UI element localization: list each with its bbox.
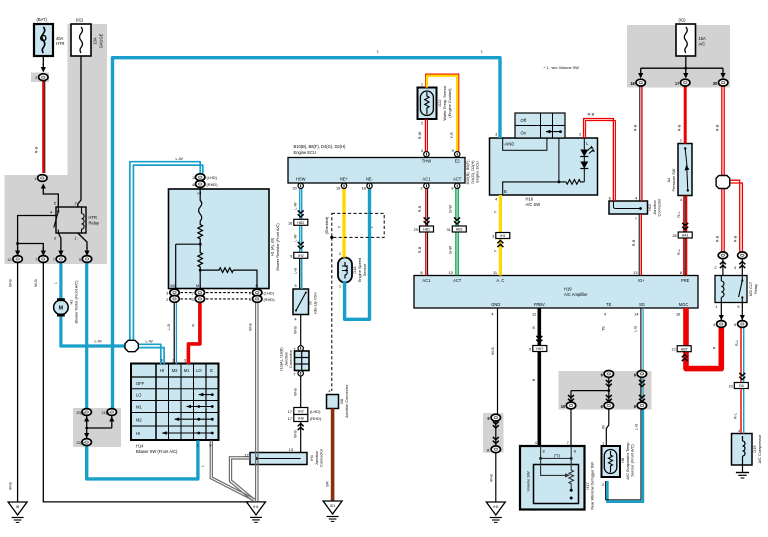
svg-text:Y: Y <box>492 210 497 213</box>
gray highlight behind connector 2 <box>31 73 49 83</box>
svg-text:3: 3 <box>734 265 736 270</box>
svg-text:LO: LO <box>196 368 201 373</box>
svg-text:11: 11 <box>493 270 497 275</box>
connector oval 7b <box>53 256 66 263</box>
svg-text:Relay: Relay <box>753 284 758 294</box>
svg-text:3: 3 <box>184 358 186 363</box>
svg-text:IH2: IH2 <box>298 254 304 258</box>
svg-text:1: 1 <box>421 82 423 87</box>
svg-text:7: 7 <box>635 216 637 221</box>
svg-text:3: 3 <box>166 291 168 296</box>
wire L-W: blower motor bottom to octagon junction <box>61 316 126 347</box>
svg-text:5: 5 <box>737 304 739 309</box>
svg-text:2: 2 <box>421 121 423 126</box>
svg-text:Relay: Relay <box>89 221 100 226</box>
svg-text:Blower SW (Front A/C): Blower SW (Front A/C) <box>136 449 178 454</box>
resistor top oval 4 (RHD) <box>192 181 218 188</box>
svg-text:HI: HI <box>160 368 164 373</box>
svg-text:21: 21 <box>106 410 110 415</box>
connector HB2 16 <box>288 219 308 225</box>
svg-text:6: 6 <box>574 448 576 453</box>
wire R-L: MG CLT oval 6 to D8 connector to compressor <box>741 328 744 434</box>
blower SW contact LO row <box>198 393 213 397</box>
svg-text:D8: D8 <box>739 384 744 388</box>
svg-text:M2: M2 <box>172 368 178 373</box>
svg-text:28: 28 <box>672 233 676 238</box>
svg-text:IH2: IH2 <box>298 410 304 414</box>
connector oval 21 <box>101 409 116 416</box>
svg-text:2: 2 <box>421 186 423 191</box>
blower resistor H1 box <box>169 189 270 289</box>
connector oval 1 above relay <box>34 175 47 182</box>
svg-text:H16: H16 <box>526 197 534 202</box>
svg-text:L-B: L-B <box>633 424 638 430</box>
wire L-B: IH2 connector to idle-up VSV <box>300 258 302 289</box>
svg-text:G-W: G-W <box>448 246 453 254</box>
wire stub: resistor top ovals to box <box>199 185 201 190</box>
svg-text:NE-: NE- <box>366 176 374 181</box>
svg-text:Connector: Connector <box>657 198 662 217</box>
svg-text:12: 12 <box>244 453 248 458</box>
svg-text:R-B: R-B <box>417 246 422 253</box>
svg-text:3: 3 <box>54 236 56 241</box>
svg-text:M1: M1 <box>136 405 142 410</box>
svg-text:A/C Amplifier: A/C Amplifier <box>564 292 588 297</box>
svg-text:7: 7 <box>53 257 55 262</box>
svg-text:Sensor (Front A/C): Sensor (Front A/C) <box>630 444 635 477</box>
svg-text:Engine ECU: Engine ECU <box>475 161 480 183</box>
svg-text:Idle-Up VSV: Idle-Up VSV <box>312 292 317 314</box>
svg-text:9: 9 <box>487 416 489 421</box>
blower resistor labels <box>166 175 280 331</box>
svg-text:W-B: W-B <box>8 482 13 490</box>
MG CLT top oval right <box>734 252 747 270</box>
A/C SW labels <box>492 65 594 252</box>
svg-text:HB1: HB1 <box>456 228 463 232</box>
svg-text:Engine ECU: Engine ECU <box>294 150 317 155</box>
fuse block oval 18 <box>630 79 645 86</box>
svg-text:A/C Compressor: A/C Compressor <box>757 434 762 463</box>
svg-text:GAUGE: GAUGE <box>99 33 104 48</box>
bottom labels <box>486 326 762 510</box>
svg-text:3: 3 <box>495 131 497 136</box>
svg-text:16: 16 <box>288 220 292 225</box>
wire R-B: octagon down to MG CLT oval 2 <box>722 188 724 253</box>
svg-text:2: 2 <box>172 358 174 363</box>
svg-text:9: 9 <box>452 148 454 153</box>
svg-text:HH7: HH7 <box>536 347 543 351</box>
svg-text:8: 8 <box>543 448 545 453</box>
wire: TE/SG panel jumpers <box>568 377 645 403</box>
svg-text:6: 6 <box>634 372 636 377</box>
wire W-B: I13 to IH2/IH8 connectors <box>300 376 302 408</box>
blower SW contact HI row <box>162 431 214 435</box>
MG CLT relay box <box>715 276 747 303</box>
blower SW table H14 <box>131 364 219 441</box>
connector IH8 17 (RHD) <box>288 415 322 422</box>
svg-text:22: 22 <box>81 440 85 445</box>
wire L-W: oval 22 to blower SW pin 1 bottom loop <box>87 441 198 479</box>
svg-text:PRE: PRE <box>681 278 690 283</box>
wire Y-R: yellow body <box>427 76 457 152</box>
svg-text:Pressure SW: Pressure SW <box>671 168 676 191</box>
svg-text:L-W: L-W <box>95 339 102 344</box>
svg-text:13: 13 <box>289 447 293 452</box>
connector D8 10 <box>728 383 748 389</box>
svg-text:5: 5 <box>54 201 56 206</box>
right column labels <box>609 18 758 420</box>
svg-text:B: B <box>504 189 507 194</box>
SG panel oval 6 <box>634 371 647 378</box>
svg-text:M1: M1 <box>184 368 190 373</box>
svg-text:B: B <box>531 326 536 329</box>
svg-text:7: 7 <box>567 440 569 445</box>
svg-text:R: R <box>190 324 195 327</box>
wire W-B: IH8 to IH1 bar pin 13 <box>300 422 302 453</box>
svg-text:W-B: W-B <box>248 323 253 331</box>
MG CLT bottom oval right <box>734 321 747 328</box>
wire R-B: battery fuse to oval 1 <box>42 81 44 173</box>
svg-text:R-L: R-L <box>734 339 739 346</box>
svg-text:HA1: HA1 <box>682 234 689 238</box>
svg-text:13: 13 <box>633 270 637 275</box>
svg-text:L-W: L-W <box>292 234 297 241</box>
svg-text:Y: Y <box>337 225 342 228</box>
wire: compressor to ground <box>736 462 749 478</box>
svg-text:31: 31 <box>446 227 450 232</box>
svg-text:Off: Off <box>521 118 527 123</box>
fuse block oval 20b <box>713 79 728 86</box>
IH1 junction connector bar <box>250 453 307 465</box>
svg-text:W-B: W-B <box>292 430 297 438</box>
wire R-L: pressure SW to amplifier PRE <box>684 196 687 276</box>
wire L-B: amplifier SG down through ovals <box>641 308 643 403</box>
fuse box (IG) 10A GAUGE <box>71 24 91 56</box>
MG CLT bottom oval left <box>713 321 726 328</box>
svg-text:13: 13 <box>448 270 452 275</box>
wire R-B: fuse oval 18 to H12 pin 4 <box>640 86 642 201</box>
svg-text:Connector: Connector <box>288 349 293 368</box>
pressure SW A4 box <box>678 144 692 196</box>
fuse box (BAT) 40A HTR <box>34 24 53 56</box>
wire G-W: ECU ACT to amplifier ACT <box>455 188 457 276</box>
connector oval 22 <box>76 439 91 446</box>
wire L: main cyan from top-left corner to oval 21 and to A/C SW <box>113 58 501 410</box>
svg-text:A/C SW: A/C SW <box>526 202 541 207</box>
connector IH2 9 <box>290 252 308 258</box>
svg-text:SG: SG <box>639 302 645 307</box>
wire W: oval 8 to evaporator sensor pin 1 <box>606 409 609 447</box>
svg-text:1: 1 <box>34 176 36 181</box>
ground ID1 brown <box>323 501 342 521</box>
svg-text:(LHD): (LHD) <box>207 175 218 180</box>
idle-up VSV box <box>293 289 309 315</box>
svg-text:W-B: W-B <box>490 347 495 355</box>
svg-text:2: 2 <box>579 131 581 136</box>
svg-text:W-B: W-B <box>8 279 13 287</box>
svg-text:ID1: ID1 <box>330 504 335 508</box>
octagon junction blower circuit <box>125 340 138 351</box>
blower SW contact M1 row <box>186 405 214 409</box>
volume SW box H17 <box>520 446 585 510</box>
svg-text:16: 16 <box>676 311 680 316</box>
svg-text:(BAT): (BAT) <box>37 17 48 22</box>
resistor bottom ovals M2 M1 E with dashed links <box>166 289 275 302</box>
svg-text:7: 7 <box>293 371 295 376</box>
svg-text:M2: M2 <box>136 417 142 422</box>
wire L-W: octagon to blower SW pin 6 (double) <box>137 344 164 364</box>
svg-text:12: 12 <box>532 311 536 316</box>
panel oval 10 <box>561 402 576 409</box>
svg-text:W-B: W-B <box>33 279 38 287</box>
wire: relay pin5 to oval 1 <box>41 184 59 208</box>
wire Y-R: water temp sensor to ECU E2 (red edge) <box>426 74 459 151</box>
svg-text:HB2: HB2 <box>297 221 304 225</box>
connector HH7 5 <box>529 346 547 352</box>
connector HBT 12 <box>671 346 691 352</box>
svg-text:On: On <box>521 130 527 135</box>
A/C amplifier H19 box <box>414 276 698 309</box>
wire R-B: fuse oval 20 to octagon filter <box>722 86 724 176</box>
svg-text:A/C: A/C <box>699 41 706 46</box>
svg-text:17: 17 <box>288 409 292 414</box>
svg-text:THW: THW <box>422 158 431 163</box>
connector oval 20 <box>76 409 91 416</box>
blower motor H2 <box>54 298 69 316</box>
svg-text:7: 7 <box>35 257 37 262</box>
svg-text:17: 17 <box>675 81 679 86</box>
svg-text:IG+: IG+ <box>638 278 645 283</box>
svg-text:29: 29 <box>414 227 418 232</box>
HTR relay box <box>54 207 86 233</box>
svg-text:8: 8 <box>601 404 603 409</box>
svg-text:FRBV: FRBV <box>534 302 545 307</box>
svg-text:BR: BR <box>324 481 329 487</box>
svg-text:5: 5 <box>529 347 531 352</box>
svg-text:3: 3 <box>294 283 296 288</box>
I13 junction connector grid <box>295 351 310 371</box>
svg-text:6: 6 <box>609 196 611 201</box>
svg-text:(Shielded): (Shielded) <box>324 216 329 234</box>
svg-text:L-W: L-W <box>292 202 297 209</box>
svg-text:ACT: ACT <box>453 278 462 283</box>
svg-text:HI: HI <box>136 431 140 436</box>
connector oval 12 <box>7 256 22 263</box>
wire BR: I18 to ground <box>331 409 335 502</box>
svg-text:G-W: G-W <box>448 205 453 213</box>
svg-text:HI: HI <box>198 190 202 195</box>
svg-text:AIND: AIND <box>505 141 515 146</box>
engine ECU labels <box>292 144 479 191</box>
svg-text:1: 1 <box>197 442 199 447</box>
text labels top left <box>8 17 104 490</box>
svg-text:18: 18 <box>361 186 365 191</box>
svg-text:HBT: HBT <box>681 347 689 351</box>
wire: oval 10 to volume SW pin 7 <box>570 409 572 447</box>
svg-text:(RHD): (RHD) <box>310 416 322 421</box>
svg-text:HTR: HTR <box>89 215 97 220</box>
svg-text:(Engine Coolant): (Engine Coolant) <box>447 88 452 118</box>
svg-text:H1 (A), (B): H1 (A), (B) <box>270 237 275 256</box>
svg-text:R-W: R-W <box>417 131 422 139</box>
svg-text:R-B: R-B <box>677 124 682 131</box>
connector IH2 17 (LHD) <box>288 408 321 415</box>
wire R: fuse oval 17 to pressure SW <box>684 86 687 144</box>
svg-text:OFF: OFF <box>136 381 145 386</box>
svg-text:5: 5 <box>79 257 81 262</box>
water temp sensor D22 <box>418 88 437 120</box>
svg-text:2: 2 <box>192 291 194 296</box>
svg-text:1: 1 <box>194 175 196 180</box>
svg-text:AC1: AC1 <box>422 278 431 283</box>
svg-text:(IG): (IG) <box>76 18 84 23</box>
GND panel oval 1 <box>488 446 501 453</box>
svg-text:TE: TE <box>606 302 612 307</box>
H12 junction connector box <box>609 201 648 214</box>
wire: relay pin1 to oval <box>78 233 90 256</box>
svg-text:8: 8 <box>451 186 453 191</box>
wire B: amplifier FRBV thick black to volume SW <box>537 308 541 446</box>
wire L-W: octagon to blower resistor top pins (double line inner) <box>133 165 202 343</box>
wire L: relay pin3 oval to blower motor <box>59 261 62 299</box>
A/C SW box H16 <box>490 138 598 195</box>
svg-text:* 1 : w/o Volume SW: * 1 : w/o Volume SW <box>544 65 580 70</box>
svg-text:AC1: AC1 <box>422 176 431 181</box>
svg-text:R-B: R-B <box>417 205 422 212</box>
svg-text:1: 1 <box>75 236 77 241</box>
svg-text:2: 2 <box>339 251 341 256</box>
svg-text:LO: LO <box>136 393 141 398</box>
svg-text:M1: M1 <box>196 283 201 288</box>
wires: blower connector block jumpers 20/21/22 <box>84 416 114 439</box>
svg-text:6: 6 <box>161 358 163 363</box>
svg-text:L-B: L-B <box>166 324 171 330</box>
svg-text:2: 2 <box>35 75 37 80</box>
svg-text:1: 1 <box>339 284 341 289</box>
svg-text:W-B: W-B <box>292 388 297 396</box>
wire R: resistor M1 to blower SW pin 3 (thick red) <box>188 302 200 364</box>
wire W-B: oval 7 to ground bus <box>43 263 249 502</box>
ground IB bottom left <box>8 502 27 522</box>
svg-text:Sensor: Sensor <box>362 263 367 276</box>
wire: relay pin3 to oval <box>58 233 63 256</box>
wire L-B: oval to evaporator sensor pin 2 (U loop) <box>606 409 643 502</box>
A/C SW internals <box>503 138 595 195</box>
svg-text:Connector: Connector <box>318 448 323 467</box>
svg-text:(LHD): (LHD) <box>310 409 321 414</box>
svg-text:12: 12 <box>7 257 11 262</box>
wire R-B: octagon right branch to MG CLT oval 3 <box>730 180 743 252</box>
resistor top oval 1 (LHD) <box>192 174 218 181</box>
wire W-B: amplifier GND to ground <box>496 308 498 502</box>
svg-text:B: B <box>531 378 536 381</box>
fuse block oval 17 <box>675 79 690 86</box>
text labels cyan L line <box>95 49 485 468</box>
svg-text:W-B: W-B <box>488 474 493 482</box>
svg-text:IH8: IH8 <box>298 417 304 421</box>
wire R-B: H12 pin 7 to amplifier IG+ <box>639 214 641 276</box>
svg-text:L-W: L-W <box>146 339 153 344</box>
svg-text:E2: E2 <box>455 158 461 163</box>
svg-text:IH2: IH2 <box>493 505 498 509</box>
svg-text:R-B: R-B <box>715 235 720 242</box>
svg-text:Rear Window Defogger SW: Rear Window Defogger SW <box>590 462 595 510</box>
gray panel: top right fuse block (IG) A/C <box>627 25 730 88</box>
connector oval 2 below BAT fuse <box>35 74 48 81</box>
blower resistor internals <box>176 189 257 289</box>
amplifier labels <box>420 270 689 317</box>
svg-text:HSW: HSW <box>296 176 306 181</box>
svg-text:Junction Connector: Junction Connector <box>344 384 349 418</box>
connector oval 5 <box>79 256 92 263</box>
svg-text:19: 19 <box>336 186 340 191</box>
svg-text:9: 9 <box>601 372 603 377</box>
svg-text:2: 2 <box>602 482 604 487</box>
wire R-B: A/C SW pin L to H12 pin 6 <box>584 119 616 201</box>
water temp sensor labels <box>417 82 454 254</box>
svg-text:2: 2 <box>714 265 716 270</box>
svg-text:E: E <box>256 283 259 288</box>
svg-text:18: 18 <box>630 81 634 86</box>
svg-text:R-B: R-B <box>631 239 636 246</box>
svg-text:(IG): (IG) <box>679 18 687 23</box>
svg-text:15A: 15A <box>699 36 707 41</box>
svg-text:R-B: R-B <box>588 112 595 117</box>
svg-text:R-B: R-B <box>34 146 39 153</box>
I13 pin circles 7/7 <box>293 346 303 377</box>
panel oval 8b <box>634 402 647 409</box>
wire R-B: ECU AC1 to amplifier AC1 <box>425 188 427 276</box>
svg-text:9: 9 <box>290 253 292 258</box>
svg-text:Volume SW: Volume SW <box>525 471 530 492</box>
wire R: amplifier MGC thick red loop to MG CLT oval 4 <box>686 308 721 369</box>
svg-text:1: 1 <box>715 304 717 309</box>
svg-text:2: 2 <box>166 297 168 302</box>
svg-text:Blower Motor (Front A/C): Blower Motor (Front A/C) <box>74 280 79 324</box>
gray panel: GND connector block <box>483 413 504 453</box>
svg-text:NE+: NE+ <box>340 176 349 181</box>
svg-text:1: 1 <box>602 440 604 445</box>
wire L-B: resistor M2 to blower SW pin 2 <box>174 302 176 364</box>
svg-text:ACT: ACT <box>453 176 462 181</box>
svg-text:Y-R: Y-R <box>449 132 454 139</box>
svg-text:1: 1 <box>486 448 488 453</box>
svg-text:7: 7 <box>293 346 295 351</box>
ground IH1 center <box>247 502 266 522</box>
connector HB1 31 <box>446 226 466 232</box>
svg-text:8: 8 <box>209 442 211 447</box>
svg-text:(LHD): (LHD) <box>264 291 275 296</box>
connector oval 7a <box>35 256 48 263</box>
svg-text:E: E <box>210 368 213 373</box>
svg-text:1: 1 <box>680 138 682 143</box>
wire: BAT fuse to oval 2 with arrow <box>41 56 46 73</box>
ECU pin circles <box>298 152 460 189</box>
svg-text:(*1): (*1) <box>554 452 561 457</box>
svg-text:R: R <box>711 346 716 349</box>
svg-text:TE: TE <box>600 326 605 331</box>
MG CLT top oval left <box>714 252 727 270</box>
svg-text:12: 12 <box>671 347 675 352</box>
wire: relay pin4 to ovals 12 and 7 <box>15 216 56 257</box>
wire: IG fuse to relay pin 2 <box>78 56 81 207</box>
gray panel: TE/SG connector block <box>559 371 652 410</box>
wire L: NE- from ECU to speed sensor loop <box>345 188 370 319</box>
engine speed sensor D18 <box>338 258 352 283</box>
svg-text:GND: GND <box>491 302 500 307</box>
GND panel oval 9 <box>488 414 501 421</box>
blower SW table labels <box>81 358 214 454</box>
